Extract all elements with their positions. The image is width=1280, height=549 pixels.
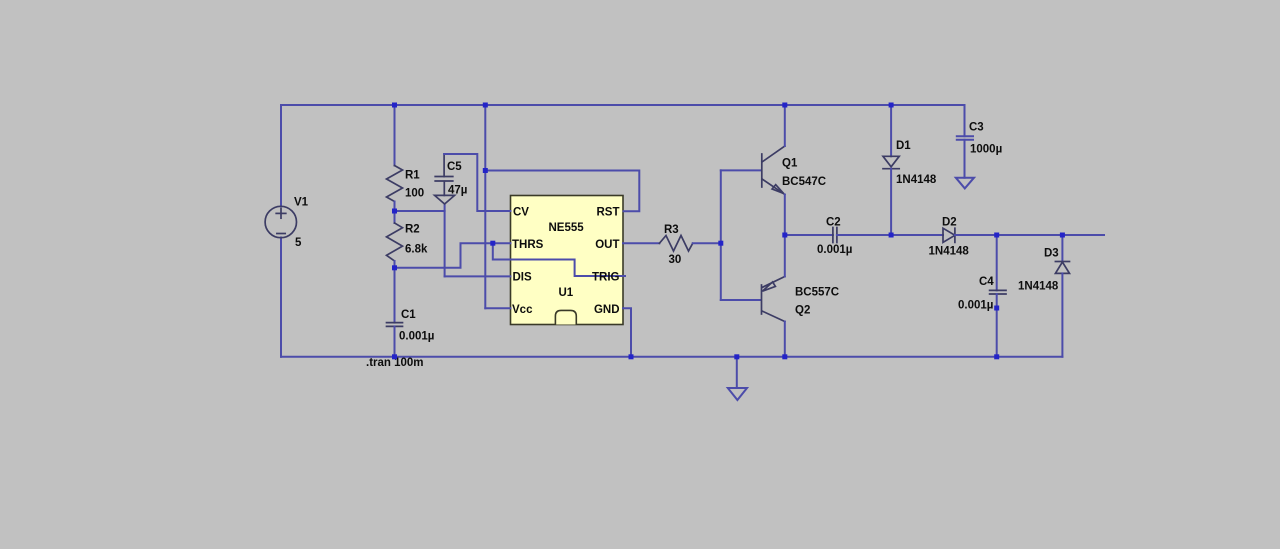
wire Q1 emitter lead	[784, 195, 786, 236]
svg-text:R3: R3	[664, 224, 679, 236]
wire D3 node to open end	[1062, 234, 1104, 236]
svg-text:47µ: 47µ	[448, 185, 467, 197]
node top Q1	[782, 103, 787, 108]
wire node divider to C5 arrow	[395, 210, 445, 212]
transistor Q2	[762, 277, 785, 322]
resistor R1	[387, 166, 403, 202]
svg-text:U1: U1	[559, 287, 574, 299]
svg-text:BC557C: BC557C	[795, 287, 839, 299]
svg-text:CV: CV	[513, 207, 529, 219]
wire D1 node to D2	[891, 234, 943, 236]
wire RST horizontal	[485, 171, 639, 212]
node below C4	[994, 306, 999, 311]
svg-text:1N4148: 1N4148	[1018, 281, 1059, 293]
svg-text:BC547C: BC547C	[782, 176, 826, 188]
node R1 R2	[392, 209, 397, 214]
svg-text:Q2: Q2	[795, 305, 810, 317]
wire Q2 collector lead	[784, 322, 786, 357]
ground C3	[956, 178, 974, 189]
wire R2 bottom lead	[394, 261, 396, 268]
svg-text:C5: C5	[447, 161, 462, 173]
svg-text:TRIG: TRIG	[592, 272, 620, 284]
node C1 bottom	[392, 354, 397, 359]
node Q2 collector bottom	[782, 354, 787, 359]
transistor Q1	[762, 146, 785, 195]
diode D2	[943, 228, 955, 242]
svg-text:0.001µ: 0.001µ	[958, 300, 993, 312]
wire Q2 base lead	[721, 299, 761, 301]
svg-text:0.001µ: 0.001µ	[399, 331, 434, 343]
wire D2 to C4 node	[955, 234, 997, 236]
svg-text:GND: GND	[594, 304, 620, 316]
wire Vcc stub	[485, 307, 510, 309]
wire R3 right lead	[693, 242, 721, 244]
voltage source V1	[265, 206, 296, 237]
svg-text:D1: D1	[896, 140, 911, 152]
svg-text:DIS: DIS	[513, 272, 533, 284]
wire D3 top lead	[1061, 235, 1063, 262]
svg-text:NE555: NE555	[549, 222, 585, 234]
svg-text:0.001µ: 0.001µ	[817, 244, 852, 256]
svg-text:C2: C2	[826, 217, 841, 229]
svg-text:V1: V1	[294, 197, 309, 209]
svg-text:30: 30	[669, 254, 682, 266]
svg-text:R1: R1	[405, 170, 420, 182]
diode D1	[883, 156, 899, 168]
wire D1 top lead	[890, 105, 892, 156]
node ground bottom	[734, 354, 739, 359]
wire R1 top lead	[394, 105, 396, 166]
wire Q1 base lead	[721, 169, 761, 171]
ground main	[728, 357, 747, 400]
diode D3	[1055, 262, 1069, 274]
svg-text:C1: C1	[401, 309, 416, 321]
node top R1	[392, 103, 397, 108]
node R3 base	[718, 241, 723, 246]
wire DIS horizontal	[445, 275, 511, 277]
wire C3 top lead	[964, 105, 966, 136]
wire C1 bottom lead	[394, 326, 396, 356]
svg-text:D3: D3	[1044, 248, 1059, 260]
node GND bottom	[629, 354, 634, 359]
node emitters C2	[782, 233, 787, 238]
capacitor C1	[387, 323, 403, 327]
wire THRS from R2 bottom	[395, 243, 511, 268]
wire top rail	[281, 104, 965, 106]
wire C4 node to D3 node	[997, 234, 1063, 236]
svg-text:6.8k: 6.8k	[405, 244, 428, 256]
wire D1 bottom lead	[890, 169, 892, 235]
wire THRS to TRIG routing	[493, 243, 625, 276]
wire C4 bottom lead	[996, 294, 998, 357]
capacitor C5	[435, 154, 455, 204]
node THRS tee	[490, 241, 495, 246]
node D1 C2	[889, 233, 894, 238]
node RST tee	[483, 168, 488, 173]
wire C5 top to CV	[444, 154, 510, 211]
svg-text:100: 100	[405, 188, 424, 200]
resistor R3	[659, 236, 692, 252]
wire Q2 emitter lead	[784, 235, 786, 277]
wire C4 top lead	[996, 235, 998, 290]
svg-text:THRS: THRS	[512, 239, 544, 251]
node top D1	[889, 103, 894, 108]
svg-text:D2: D2	[942, 217, 957, 229]
wire bottom rail	[281, 356, 1062, 358]
svg-text:1000µ: 1000µ	[970, 144, 1002, 156]
wire V1 bottom lead	[280, 238, 282, 357]
node top Vcc	[483, 103, 488, 108]
wire OUT lead	[623, 242, 659, 244]
node D3 tee	[1060, 233, 1065, 238]
capacitor C3	[957, 136, 973, 178]
svg-text:1N4148: 1N4148	[896, 174, 937, 186]
wire emitter to C2	[785, 234, 833, 236]
resistor R2	[387, 223, 403, 261]
op-amp U1 box (NE555 body)	[511, 196, 624, 325]
svg-text:RST: RST	[597, 207, 620, 219]
wire Vcc RST rail vertical	[484, 105, 486, 308]
wire V1 top lead	[280, 105, 282, 207]
svg-text:C4: C4	[979, 276, 994, 288]
wire D3 bottom lead	[1061, 273, 1063, 356]
wire GND stub of U1	[623, 308, 631, 357]
wire DIS vertical	[444, 204, 446, 276]
svg-text:R2: R2	[405, 224, 420, 236]
svg-text:1N4148: 1N4148	[929, 246, 970, 258]
wire C1 top lead	[394, 268, 396, 323]
wire Q1 collector lead	[784, 105, 786, 146]
capacitor C2	[833, 228, 837, 243]
wire R2 top lead	[394, 211, 396, 223]
svg-text:Vcc: Vcc	[512, 304, 533, 316]
capacitor C4	[990, 290, 1006, 294]
node D2 C4	[994, 233, 999, 238]
node C4 bottom	[994, 354, 999, 359]
node R2 C1	[392, 265, 397, 270]
wire base link vertical	[720, 170, 722, 300]
wire R1 bottom lead	[394, 202, 396, 212]
wire C2 to D1 node	[837, 234, 891, 236]
svg-text:Q1: Q1	[782, 158, 798, 170]
svg-text:5: 5	[295, 237, 302, 249]
svg-text:C3: C3	[969, 122, 984, 134]
svg-text:OUT: OUT	[595, 239, 619, 251]
